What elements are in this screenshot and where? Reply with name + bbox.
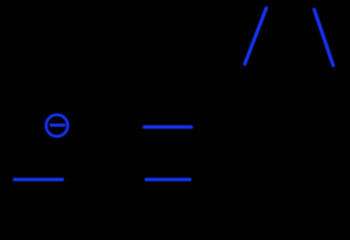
bond: bottom-right horizontal: [146, 178, 190, 182]
bond: middle-right horizontal: [144, 125, 191, 129]
bond: upper diagonal falling (\): [314, 10, 333, 66]
bond: upper diagonal rising (/): [245, 8, 266, 64]
bond: bottom-left horizontal: [15, 178, 63, 182]
negative charge circle: [46, 115, 68, 137]
minus bar inside charge circle: [51, 123, 64, 126]
